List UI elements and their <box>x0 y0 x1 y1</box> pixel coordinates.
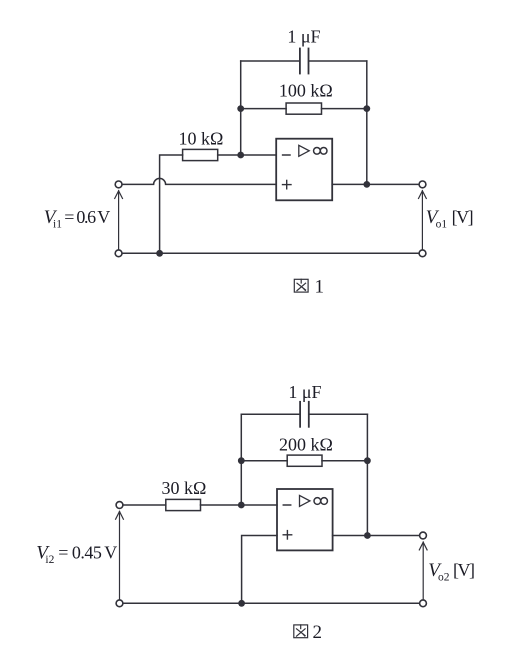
wire: C2 left lead <box>241 413 299 415</box>
node: junction R3/feedback <box>238 502 245 509</box>
op-amp U2 plus sign <box>283 531 292 539</box>
wire: op-amp output to terminal <box>332 183 419 185</box>
wire: C1 right lead <box>309 60 366 62</box>
arrow: Vi2 source arrow <box>116 512 124 600</box>
wire: op-amp 2 output to terminal <box>333 535 420 537</box>
capacitor C2 <box>300 402 309 427</box>
wire: C2 right lead <box>310 413 368 415</box>
op-amp U1 infinity symbol <box>314 147 327 154</box>
wire: R4 left lead <box>241 460 287 462</box>
wire: C1 left lead <box>241 60 299 62</box>
svg-text:Vi1=0.6V: Vi1=0.6V <box>44 207 111 231</box>
node: junction R1/feedback <box>237 152 244 159</box>
terminal: bottom-right circle 1 <box>419 250 426 257</box>
svg-text:10 kΩ: 10 kΩ <box>179 129 224 149</box>
node: output junction <box>363 181 370 188</box>
terminal: input top circle 1 <box>115 181 122 188</box>
node: junction C2/R4 right <box>364 457 371 464</box>
node: rail junction 1 <box>156 250 163 257</box>
wire: right vertical C2 to output node <box>366 414 368 535</box>
resistor R3 30 kOhm <box>166 499 201 510</box>
wire: R2 left lead <box>241 108 286 110</box>
wire: R2 right lead <box>322 108 367 110</box>
wire: right vertical C1 to output node <box>366 61 368 184</box>
resistor R4 200 kOhm <box>287 455 322 466</box>
terminal: bottom-right circle 2 <box>420 600 427 607</box>
svg-text:1: 1 <box>315 277 325 298</box>
wire: R3 right lead to inverting input <box>201 504 278 506</box>
op-amp U1 minus sign <box>283 154 290 156</box>
arrow: Vo1 output arrow <box>419 191 427 249</box>
svg-text:100 kΩ: 100 kΩ <box>279 80 333 100</box>
op-amp U1 plus sign <box>283 180 292 188</box>
caption: figure 1 kanji "zu" <box>294 279 308 292</box>
op-amp U2 triangle <box>300 495 310 506</box>
arrow: Vo2 output arrow <box>419 542 427 599</box>
wire: bottom rail 2 <box>123 602 419 604</box>
wire: input to R3 <box>123 504 166 506</box>
op-amp U1 box <box>276 139 332 201</box>
wire: left vertical C1 to R2 node <box>240 61 242 155</box>
svg-text:1 μF: 1 μF <box>288 382 321 402</box>
svg-text:30 kΩ: 30 kΩ <box>162 478 207 498</box>
terminal: bottom-left circle 1 <box>115 250 122 257</box>
op-amp U2 box <box>277 489 333 550</box>
capacitor C1 <box>300 49 309 74</box>
wire: input to + with hop over vertical <box>122 178 276 184</box>
wire: left vertical C2 to R4 node <box>240 414 242 505</box>
arrow: Vi1 source arrow <box>115 191 123 250</box>
svg-text:2: 2 <box>313 622 323 643</box>
terminal: bottom-left circle 2 <box>116 600 123 607</box>
terminal: output circle 1 <box>419 181 426 188</box>
wire: + input down to rail 2 <box>242 536 277 604</box>
svg-text:1 μF: 1 μF <box>287 27 320 47</box>
terminal: input circle 2 <box>116 502 123 509</box>
wire: R4 right lead <box>322 460 367 462</box>
resistor R2 100 kOhm <box>286 103 321 114</box>
wire: R1 left lead and corner down <box>160 155 183 253</box>
op-amp U2 infinity symbol <box>314 498 327 505</box>
node: junction C2/R4 left <box>238 457 245 464</box>
terminal: output circle 2 <box>420 532 427 539</box>
svg-text:200 kΩ: 200 kΩ <box>279 435 333 455</box>
node: rail junction 2 <box>238 600 245 607</box>
node: junction C1/R2 left <box>237 105 244 112</box>
node: output junction 2 <box>364 532 371 539</box>
op-amp U1 triangle <box>299 145 309 156</box>
resistor R1 10 kOhm <box>183 149 218 160</box>
wire: R1 right lead to inverting input <box>218 154 277 156</box>
wire: bottom rail 1 <box>122 252 419 254</box>
op-amp U2 minus sign <box>283 504 290 506</box>
caption: figure 2 kanji "zu" <box>294 625 308 638</box>
node: junction C1/R2 right <box>363 105 370 112</box>
